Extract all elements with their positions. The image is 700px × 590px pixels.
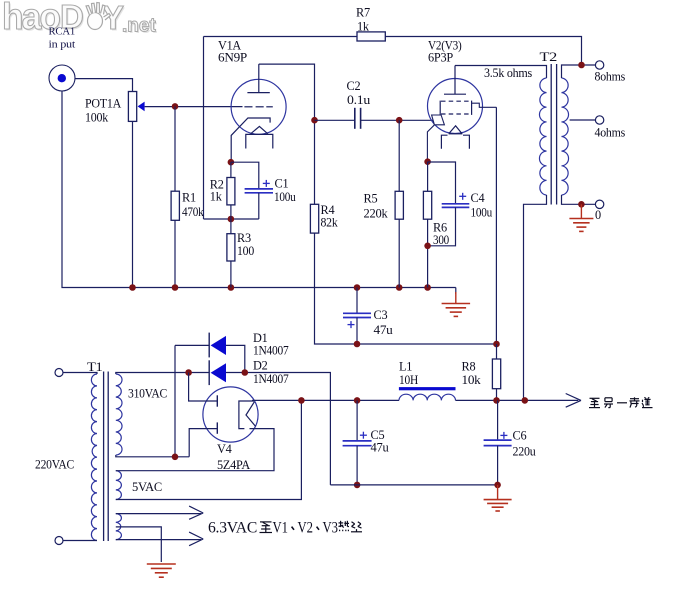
wire V4 filament to 5VAC top: [116, 429, 274, 471]
wire C3 to B+ node rail: [356, 318, 358, 345]
wire secondary bottom to 0 terminal: [562, 195, 596, 204]
svg-text:4ohms: 4ohms: [595, 126, 626, 140]
connector RCA1 input jack: [49, 65, 75, 91]
resistor R6 300: [423, 191, 431, 219]
wire node to R3: [230, 219, 232, 234]
svg-text:R8: R8: [462, 360, 476, 374]
terminal 0: [595, 200, 603, 208]
wire RCA to POT1A top: [75, 79, 133, 92]
transformer T1 core: [104, 372, 109, 542]
wire rail to C3: [356, 288, 358, 313]
V4 plate 1: [216, 395, 218, 406]
capacitor C4 100u: [442, 204, 470, 208]
svg-text:T1: T1: [87, 360, 103, 374]
node R3 ground: [228, 284, 235, 291]
wire 220VAC top lead: [63, 373, 97, 375]
tube V2(V3) envelope: [428, 79, 483, 134]
V1A plate: [247, 64, 269, 93]
svg-text:R5: R5: [364, 192, 378, 206]
svg-text:1N4007: 1N4007: [253, 372, 289, 386]
svg-text:220k: 220k: [364, 206, 389, 220]
node C5 top: [354, 397, 361, 404]
svg-text:100: 100: [237, 244, 254, 258]
transformer T1 6.3VAC winding: [116, 514, 122, 540]
wire C2 to V2 grid: [361, 119, 434, 121]
wire R3 to ground rail: [230, 261, 232, 288]
V4 cathode structure: [239, 401, 256, 429]
node C6 bottom / PSU ground: [494, 482, 501, 489]
wire T2 primary bottom to B+ line: [524, 195, 547, 400]
potentiometer POT1A body: [128, 92, 136, 122]
wire feedback vertical: [203, 37, 205, 220]
node HV top / D2: [185, 369, 192, 376]
capacitor C6 220u: [484, 440, 512, 446]
tube V1A envelope: [231, 79, 286, 134]
wire HV bottom to V4 plate 2: [189, 429, 217, 457]
capacitor C5 47u: [343, 441, 372, 446]
transformer T2 secondary winding: [562, 78, 569, 195]
svg-text:V3: V3: [323, 520, 339, 537]
svg-text:1k: 1k: [357, 20, 370, 34]
wire top rail left of R7: [204, 36, 358, 38]
svg-text:10H: 10H: [399, 373, 418, 387]
node C3 bottom: [354, 341, 361, 348]
wire B+ line V4 to L1: [252, 399, 399, 401]
svg-text:100k: 100k: [85, 111, 109, 125]
node screen/R8/C3 rail end: [493, 341, 500, 348]
wire HV top to V4 plate 1: [189, 373, 218, 402]
wire 6.3VAC lead 1: [116, 513, 201, 515]
node C4/R6 bottom: [424, 243, 431, 250]
wire R1 to ground rail: [174, 220, 176, 287]
svg-text:R7: R7: [356, 6, 370, 20]
C1 polarity plus: [263, 180, 270, 187]
node 0 terminal ground tap: [578, 201, 585, 208]
node D1/D2 anodes: [242, 369, 249, 376]
V1A heater: [246, 126, 273, 148]
svg-text:300: 300: [433, 233, 449, 247]
node R6 ground: [424, 284, 431, 291]
V1A cathode: [231, 118, 270, 162]
wire D1 cathode side: [175, 344, 209, 346]
svg-text:47u: 47u: [374, 323, 393, 337]
wire 310VAC top lead: [116, 373, 189, 375]
node C5 bottom: [354, 482, 361, 489]
V2 cathode lead: [427, 125, 434, 162]
wire B+ to C5: [356, 400, 358, 440]
resistor R7 1k feedback: [357, 32, 385, 41]
diode D2 1N4007: [209, 360, 226, 385]
label 至V1、V2、V3热丝 (heaters): [260, 522, 273, 533]
wire cathode to C1 top: [231, 162, 259, 189]
ground earth (heater CT): [147, 564, 176, 577]
svg-text:C1: C1: [275, 177, 289, 191]
resistor R8 10k: [492, 359, 500, 389]
resistor R4 82k: [310, 204, 318, 233]
svg-text:C3: C3: [374, 308, 388, 322]
V2 cathode flag: [432, 115, 445, 125]
resistor R1 470k: [171, 191, 179, 220]
transformer T2 primary winding: [539, 78, 546, 195]
label 至另一声道 (to other channel): [589, 398, 600, 407]
svg-text:C2: C2: [347, 79, 361, 93]
wire C5 to PSU return: [356, 446, 358, 485]
node R5 ground: [396, 284, 403, 291]
wire 220VAC bottom lead: [63, 540, 97, 542]
svg-text:C4: C4: [471, 191, 485, 205]
wire T2 secondary top to 8ohm: [562, 65, 596, 78]
transformer T2 core: [551, 64, 556, 205]
capacitor C2 0.1u: [355, 108, 361, 129]
node POT1A ground: [129, 284, 136, 291]
diode D1 1N4007: [209, 333, 226, 358]
wire 6.3VAC centre tap to earth: [116, 527, 162, 562]
arrow to other channel: [566, 394, 581, 408]
svg-text:C6: C6: [513, 429, 527, 443]
tube V4 envelope: [203, 387, 258, 442]
wire B+ line L1 to other channel: [456, 399, 579, 401]
wire plate node to C2: [315, 119, 355, 121]
svg-text:10k: 10k: [462, 373, 482, 387]
wire D2 cathode side: [189, 372, 210, 374]
svg-text:8ohms: 8ohms: [595, 70, 626, 84]
resistor R3 100: [227, 234, 235, 261]
wire B+ to C6: [497, 400, 499, 440]
svg-text:V4: V4: [217, 442, 232, 456]
inductor L1 core bar: [399, 387, 456, 390]
V4 plate 2: [216, 422, 218, 433]
node HV bottom / D1: [172, 454, 179, 461]
svg-text:in put: in put: [49, 39, 76, 51]
node wiper/R1 junction: [172, 103, 179, 110]
wire wiper to V1A grid: [145, 106, 243, 108]
wire C6 to PSU return: [497, 446, 499, 485]
V2 heater: [441, 126, 469, 149]
V2 plate: [444, 66, 466, 95]
POT1A wiper arrow: [138, 102, 145, 112]
watermark haoDIY.net: [2, 0, 158, 38]
svg-text:T2: T2: [540, 50, 558, 64]
wire R5 to ground rail: [398, 219, 400, 287]
V1A grid dashes: [244, 106, 272, 108]
wire grid node to R5: [398, 120, 400, 191]
svg-text:82k: 82k: [321, 216, 339, 230]
svg-text:V1: V1: [273, 520, 289, 537]
svg-text:L1: L1: [399, 360, 412, 374]
wire rail to earth: [455, 288, 457, 295]
svg-text:220u: 220u: [513, 444, 536, 458]
terminal 220VAC bottom: [55, 537, 63, 545]
node T2 primary feed: [522, 397, 529, 404]
wire D2 anode to PSU return: [226, 373, 330, 485]
V2 grid side bars: [440, 101, 471, 115]
svg-text:470k: 470k: [182, 205, 205, 219]
C5 polarity plus: [360, 432, 367, 439]
arrow 6.3VAC lead 2: [189, 532, 203, 546]
svg-text:5Z4PA: 5Z4PA: [217, 458, 250, 472]
svg-text:5VAC: 5VAC: [132, 480, 162, 494]
ground earth (speaker 0): [569, 219, 593, 232]
wire POT1A bottom to ground rail: [132, 121, 134, 287]
node 5VAC/B+ takeoff: [298, 397, 305, 404]
wire cathode to R2: [230, 162, 232, 177]
transformer T1 primary winding: [91, 374, 97, 541]
svg-text:0.1u: 0.1u: [347, 93, 370, 107]
svg-text:6N9P: 6N9P: [218, 51, 247, 65]
svg-text:RCA1: RCA1: [49, 26, 76, 38]
svg-text:R1: R1: [182, 191, 196, 205]
wire R4 to B+ node rail: [315, 233, 497, 344]
svg-text:220VAC: 220VAC: [35, 458, 74, 472]
earth stem T2: [580, 204, 582, 218]
svg-text:100u: 100u: [471, 206, 493, 220]
wire C1 bottom: [258, 193, 260, 219]
svg-text:6P3P: 6P3P: [428, 51, 453, 65]
wire PSU return rail: [330, 484, 497, 486]
node C2/R5/V2 grid: [396, 117, 403, 124]
wire 5VAC bottom to B+ line: [116, 400, 302, 499]
wire cathode node bottom: [204, 218, 259, 220]
ground earth (PSU): [484, 500, 512, 511]
node V2 cathode: [424, 158, 431, 165]
svg-text:47u: 47u: [371, 441, 389, 455]
terminal 220VAC top: [55, 369, 63, 377]
ground earth (signal rail): [442, 304, 471, 317]
svg-text:1N4007: 1N4007: [253, 344, 289, 358]
node R2/R3/C1/feedback: [228, 216, 235, 223]
wire signal ground rail: [62, 91, 456, 288]
node V1A plate / C2 / R4: [311, 117, 318, 124]
wire D1 anode to D2 anode: [226, 345, 245, 372]
svg-text:100u: 100u: [274, 190, 296, 204]
svg-text:V2: V2: [298, 520, 314, 537]
C4 polarity plus: [459, 193, 466, 200]
earth stem: [455, 292, 457, 304]
earth stem C6: [497, 485, 499, 499]
arrow 6.3VAC lead 1: [189, 506, 203, 519]
svg-text:1k: 1k: [210, 190, 223, 204]
svg-text:POT1A: POT1A: [85, 97, 121, 111]
wire cathode to R6: [427, 162, 429, 192]
node R1 ground: [172, 284, 179, 291]
wire node to R8: [496, 344, 498, 359]
node C3 top on ground rail: [354, 284, 361, 291]
svg-text:0: 0: [595, 208, 601, 222]
wire V2 plate to T2 primary: [455, 66, 547, 79]
wire 310VAC bottom lead: [116, 455, 189, 457]
wire R8 to B+ line: [496, 389, 498, 401]
V2 grid rows: [441, 101, 471, 114]
wire D1 to HV bottom: [174, 345, 176, 456]
terminal 4ohms: [595, 116, 603, 124]
C3 polarity plus: [348, 321, 355, 328]
svg-text:310VAC: 310VAC: [128, 387, 167, 401]
svg-text:3.5k ohms: 3.5k ohms: [484, 66, 532, 80]
svg-text:.net: .net: [122, 16, 156, 37]
node V1A cathode: [228, 159, 235, 166]
wire 4ohm tap: [570, 119, 596, 121]
wire top rail R7 to 8ohm tap: [385, 37, 581, 66]
transformer T1 5VAC winding: [116, 471, 122, 500]
wire V2 screen down to B+ node: [495, 107, 497, 344]
C6 polarity plus: [500, 432, 507, 439]
transformer T1 310VAC winding: [116, 374, 122, 455]
svg-text:6.3VAC: 6.3VAC: [208, 520, 257, 537]
capacitor C1 100u: [245, 189, 273, 193]
svg-text:D2: D2: [253, 359, 268, 373]
wire wiper junction down to R1: [174, 106, 176, 191]
wire 6.3VAC lead 2: [116, 539, 201, 541]
resistor R5 220k: [395, 191, 403, 219]
wire C4 bottom to R6 bottom: [428, 207, 456, 245]
inductor L1 10H winding: [399, 394, 456, 400]
svg-text:R3: R3: [237, 231, 251, 245]
node 8ohm feedback tap: [578, 62, 585, 69]
capacitor C3 47u: [343, 313, 371, 317]
V2 screen lead: [472, 103, 497, 107]
wire R2 to node: [230, 205, 232, 219]
wire V1A plate to R4: [259, 64, 315, 204]
wire R6 to ground rail: [427, 219, 429, 287]
node R8 bottom: [493, 397, 500, 404]
wire cathode to C4 top: [428, 162, 456, 203]
resistor R2 1k: [227, 178, 235, 205]
terminal 8ohms: [595, 61, 603, 69]
